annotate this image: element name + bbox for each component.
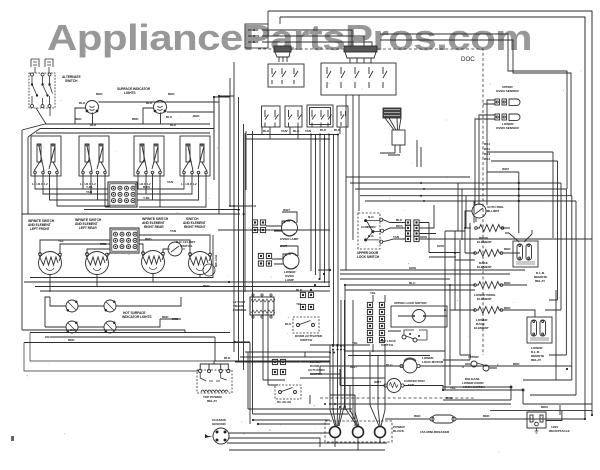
svg-text:RED: RED [193, 114, 200, 118]
wire top outer L1 [268, 11, 592, 200]
svg-text:3: 3 [462, 365, 464, 369]
svg-text:RED: RED [504, 247, 511, 251]
svg-text:RDA: RDA [396, 224, 403, 228]
svg-text:RED: RED [513, 362, 520, 366]
hatched connector block [383, 108, 401, 118]
infinite switch right front [180, 136, 210, 178]
svg-text:LOCK MOTOR: LOCK MOTOR [422, 360, 444, 364]
svg-text:ELEMENT: ELEMENT [477, 240, 492, 244]
svg-text:RECEPTACLE: RECEPTACLE [549, 429, 570, 433]
oven lamp terminals [252, 220, 257, 225]
terminal strip col B [379, 302, 384, 342]
svg-text:UPPER LOCK MOTOR: UPPER LOCK MOTOR [394, 301, 427, 305]
svg-text:RED: RED [100, 242, 107, 246]
svg-text:ELEMENT: ELEMENT [477, 297, 492, 301]
svg-text:BLK: BLK [293, 129, 300, 133]
hi limit thermostat [166, 240, 195, 256]
lower bake element [474, 307, 503, 331]
svg-text:BLK: BLK [170, 123, 177, 127]
lower dlb remote relay [527, 317, 552, 362]
hot surface lamp 1 [63, 300, 81, 312]
hot surface label [122, 311, 152, 319]
lower oven lamp [283, 253, 299, 282]
svg-text:RED: RED [203, 284, 210, 288]
terminal grid 2 [110, 228, 139, 253]
upper oven sensor [495, 85, 520, 105]
svg-text:DOC: DOC [461, 56, 475, 63]
door activated switch [293, 317, 323, 342]
wire top inner [268, 11, 280, 24]
labels BR/W stubs [262, 30, 268, 42]
svg-text:BLK: BLK [166, 115, 173, 119]
svg-text:ELEMENT: ELEMENT [474, 326, 489, 330]
svg-text:BLK: BLK [146, 101, 153, 105]
scan speckles [27, 70, 582, 452]
svg-text:RED: RED [446, 396, 453, 400]
connector top-left BR/W [245, 24, 268, 48]
svg-text:BLK: BLK [90, 123, 97, 127]
svg-text:ELEMENT: ELEMENT [477, 265, 492, 269]
DOC dashed boundary [258, 49, 483, 355]
upper lock switch terminals col [405, 220, 410, 225]
svg-text:RIGHT FRONT: RIGHT FRONT [184, 225, 206, 229]
svg-text:RED: RED [504, 306, 511, 310]
svg-text:TAN: TAN [305, 129, 312, 133]
wires sensors to DOC [475, 100, 495, 205]
svg-text:SWITCH: SWITCH [300, 338, 313, 342]
svg-text:RELAY: RELAY [531, 358, 542, 362]
wires switch row to grid1 [22, 178, 240, 214]
wires lamps [75, 102, 219, 124]
svg-text:SWITCH: SWITCH [180, 244, 193, 248]
lower lock motor [400, 356, 444, 373]
wires power block fan-in [330, 300, 385, 450]
surface indicator lights label [117, 87, 151, 95]
svg-text:LAMP: LAMP [285, 278, 294, 282]
svg-text:RELAY: RELAY [207, 399, 218, 403]
hot surface lamp 2 [101, 300, 119, 312]
bus above switches [22, 96, 219, 330]
wires bottom right [443, 386, 592, 404]
svg-text:BK1: BK1 [484, 142, 490, 146]
wires lock switch right [383, 205, 460, 257]
svg-text:RED: RED [414, 414, 421, 418]
svg-text:RC 29 HA: RC 29 HA [277, 400, 292, 404]
svg-text:ORN: ORN [420, 235, 428, 239]
terminal grid 1 [108, 182, 137, 207]
wires ground [227, 433, 387, 450]
svg-text:LIGHTS: LIGHTS [124, 91, 136, 95]
svg-text:RED: RED [68, 338, 75, 342]
bus to right side [346, 177, 576, 201]
svg-text:B-W: B-W [253, 34, 259, 38]
svg-text:RED: RED [145, 237, 152, 241]
clock switch box right [321, 63, 396, 95]
surface element right front [189, 252, 212, 275]
svg-text:TAN: TAN [86, 190, 93, 194]
svg-text:RED: RED [75, 117, 82, 121]
DOC bottom dashed [320, 397, 475, 399]
svg-text:GROUND: GROUND [212, 422, 227, 426]
svg-text:LEFT FRONT: LEFT FRONT [30, 227, 50, 231]
svg-text:BK2: BK2 [484, 147, 490, 151]
hot surface lamp 4 [101, 321, 119, 333]
wire mid-bottom bus [235, 343, 330, 425]
upper lock motor [391, 301, 447, 327]
svg-text:YEL: YEL [370, 291, 376, 295]
svg-text:BRN: BRN [143, 185, 150, 189]
alternate switch dashed box [29, 73, 55, 108]
convection fan [384, 379, 425, 393]
svg-text:BLK: BLK [296, 288, 303, 292]
broil element [475, 225, 504, 245]
svg-text:WHT: WHT [502, 167, 509, 171]
12V transformer [233, 294, 275, 318]
svg-text:YEL: YEL [450, 386, 456, 390]
bake element [474, 250, 503, 270]
svg-text:1: 1 [497, 363, 499, 367]
dlb remote relay [505, 230, 547, 283]
infinite switch left rear [79, 136, 109, 178]
indicator lamp 2 [154, 101, 167, 114]
svg-text:BLK: BLK [263, 129, 270, 133]
svg-text:15A MINI-BREAKER: 15A MINI-BREAKER [420, 430, 450, 434]
svg-text:RED: RED [96, 92, 103, 96]
wires motors [340, 366, 572, 390]
lower oven lamp terminals [258, 253, 263, 258]
svg-text:WHT: WHT [280, 244, 287, 248]
svg-text:OVEN LAMP: OVEN LAMP [280, 237, 298, 241]
svg-text:BK4: BK4 [484, 157, 490, 161]
svg-text:BK3: BK3 [484, 152, 490, 156]
wire bottom-left long runs [185, 330, 215, 361]
svg-text:TAN: TAN [281, 129, 288, 133]
surface element left front [39, 252, 62, 275]
pot switch circle [203, 255, 218, 276]
svg-text:YEL: YEL [58, 239, 64, 243]
120V receptacle [527, 412, 570, 433]
svg-text:RED: RED [504, 281, 511, 285]
svg-text:UPPER: UPPER [468, 355, 479, 359]
lower oven sensor [495, 114, 520, 130]
svg-text:RED: RED [168, 92, 175, 96]
svg-text:OVEN SENSOR: OVEN SENSOR [496, 89, 519, 93]
svg-text:FORMER: FORMER [233, 308, 247, 312]
wire right lower verticals [523, 290, 560, 415]
surface element left rear [86, 252, 109, 275]
clock connector right [344, 46, 377, 63]
svg-text:BLK: BLK [396, 218, 403, 222]
svg-text:RED: RED [162, 315, 169, 319]
svg-text:GRN: GRN [409, 266, 417, 270]
top lock switch [380, 330, 427, 347]
door activated switch terminals [300, 292, 305, 297]
wires top power relay [24, 333, 330, 372]
vertical bundle center [234, 62, 359, 370]
svg-text:GRN: GRN [437, 244, 445, 248]
svg-text:HI-LIMIT: HI-LIMIT [487, 209, 499, 213]
indicator lamp 1 [86, 101, 99, 114]
svg-text:WHT: WHT [283, 208, 290, 212]
wire top outer L2 [280, 17, 585, 200]
svg-text:BLK: BLK [320, 128, 327, 132]
svg-text:OVEN SENSOR: OVEN SENSOR [496, 126, 519, 130]
svg-text:BLU: BLU [409, 281, 416, 285]
svg-text:TAN: TAN [167, 180, 174, 184]
svg-text:YEL: YEL [296, 302, 302, 306]
wire oven lamp [266, 212, 297, 231]
wire right verticals of left block [230, 78, 245, 292]
wire lower area horizontals [310, 345, 355, 385]
wire clock to right step2 [380, 40, 571, 196]
lower broil element [474, 282, 503, 302]
lower door actuated switch terminals [272, 359, 277, 364]
alternate switch label [62, 75, 81, 83]
clock switch box left [268, 64, 304, 87]
svg-text:RELAY: RELAY [535, 279, 546, 283]
svg-text:POT SW: POT SW [214, 255, 218, 267]
svg-text:Y-BL: Y-BL [143, 196, 150, 200]
svg-text:SWITCH: SWITCH [65, 79, 78, 83]
wires hot surface [24, 297, 250, 343]
svg-text:L1 H1 P L2: L1 H1 P L2 [181, 182, 197, 186]
svg-text:BLK: BLK [224, 356, 231, 360]
svg-text:L1 H1 P L2: L1 H1 P L2 [32, 182, 48, 186]
clock connector left [274, 46, 291, 62]
svg-text:LEFT REAR: LEFT REAR [79, 226, 97, 230]
auto boil hi-limit [469, 204, 504, 218]
svg-text:TAN: TAN [393, 235, 400, 239]
terminal strip col A [367, 302, 372, 342]
infinite switch right rear [134, 136, 164, 178]
speck [11, 436, 14, 441]
connector row under clock [262, 105, 349, 127]
svg-text:RED: RED [132, 117, 139, 121]
wire element feed verticals [445, 223, 470, 390]
labels BK1-4 [484, 142, 490, 161]
wire clock feeds [268, 30, 372, 47]
infinite switch left front [31, 136, 61, 178]
wire clock to right step1 [380, 34, 567, 355]
svg-text:N.O.: N.O. [368, 234, 375, 238]
wires grid2 to elements [24, 230, 330, 292]
svg-text:RED: RED [172, 317, 179, 321]
wires lock area [355, 295, 401, 352]
surface element right rear [142, 251, 165, 274]
svg-text:BLOCK: BLOCK [393, 429, 405, 433]
svg-text:RIGHT REAR: RIGHT REAR [144, 225, 164, 229]
wires right column [443, 211, 535, 390]
pin labels [32, 182, 197, 186]
svg-text:BLK: BLK [79, 101, 86, 105]
wires breaker/receptacle [385, 411, 592, 421]
lower door switch dashed [275, 385, 301, 404]
svg-text:BRN: BRN [541, 405, 548, 409]
svg-text:COMMON: COMMON [361, 225, 376, 229]
svg-text:N.O.: N.O. [368, 215, 375, 219]
wire lower oven lamp [272, 246, 298, 264]
oven lamp [280, 220, 298, 241]
loom under hatched block [385, 118, 401, 130]
svg-text:SWITCH: SWITCH [381, 343, 394, 347]
hot surface lamp 3 [63, 321, 81, 333]
svg-text:B-R: B-R [253, 40, 259, 44]
labels under switches [28, 217, 206, 231]
svg-text:Y-BL: Y-BL [86, 185, 93, 189]
svg-text:INDICATOR LIGHTS: INDICATOR LIGHTS [122, 315, 152, 319]
svg-text:LOCK SWITCH: LOCK SWITCH [357, 255, 380, 259]
svg-text:B-R: B-R [253, 28, 259, 32]
svg-text:TAN: TAN [170, 229, 177, 233]
svg-text:RED: RED [483, 414, 490, 418]
lower door actuated switch label [308, 360, 326, 376]
svg-text:FAN: FAN [408, 383, 415, 387]
svg-text:BLK: BLK [285, 322, 292, 326]
